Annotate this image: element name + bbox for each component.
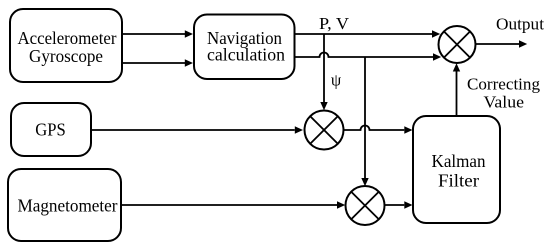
multiplier M2 (middle) [305, 111, 344, 150]
wire GPS to multiplier M2 [91, 126, 303, 133]
svg-text:GPS: GPS [35, 120, 66, 140]
svg-text:Correcting: Correcting [467, 75, 540, 94]
svg-text:Accelerometer: Accelerometer [18, 28, 117, 48]
wire nav to multiplier M1 (P,V line) [295, 30, 441, 37]
block GPS [11, 103, 91, 156]
block Accelerometer/Gyroscope [10, 9, 122, 82]
wire accel to nav (bottom) [122, 59, 193, 66]
wire nav to multiplier M1 (second line, hop over psi branch) [295, 53, 442, 61]
wire Magnetometer to multiplier M3 [121, 201, 345, 208]
svg-text:Kalman: Kalman [432, 151, 486, 171]
label Correcting Value [467, 75, 540, 112]
wire multiplier M2 to Kalman Filter (hop over M3 branch) [344, 126, 413, 134]
wire branch down to multiplier M3 [361, 57, 368, 186]
block Magnetometer [8, 169, 121, 241]
block Navigation calculation [194, 15, 295, 80]
svg-text:ψ: ψ [331, 71, 342, 90]
block Kalman Filter [413, 116, 500, 223]
svg-text:P, V: P, V [319, 14, 350, 33]
wire Kalman Filter up to multiplier M1 (correcting value) [453, 63, 460, 116]
svg-text:calculation: calculation [207, 45, 285, 65]
wire multiplier M1 to output [476, 40, 528, 47]
svg-text:Magnetometer: Magnetometer [18, 195, 118, 215]
svg-text:Output: Output [496, 14, 544, 33]
svg-text:Gyroscope: Gyroscope [29, 46, 103, 66]
wire multiplier M3 to Kalman Filter [385, 201, 413, 208]
multiplier M1 (top right) [439, 26, 476, 63]
svg-text:Filter: Filter [438, 171, 479, 191]
svg-text:Value: Value [484, 93, 525, 112]
multiplier M3 (bottom) [346, 186, 385, 225]
wire accel to nav (top) [122, 30, 193, 37]
wire psi branch down to multiplier M2 [320, 34, 327, 110]
